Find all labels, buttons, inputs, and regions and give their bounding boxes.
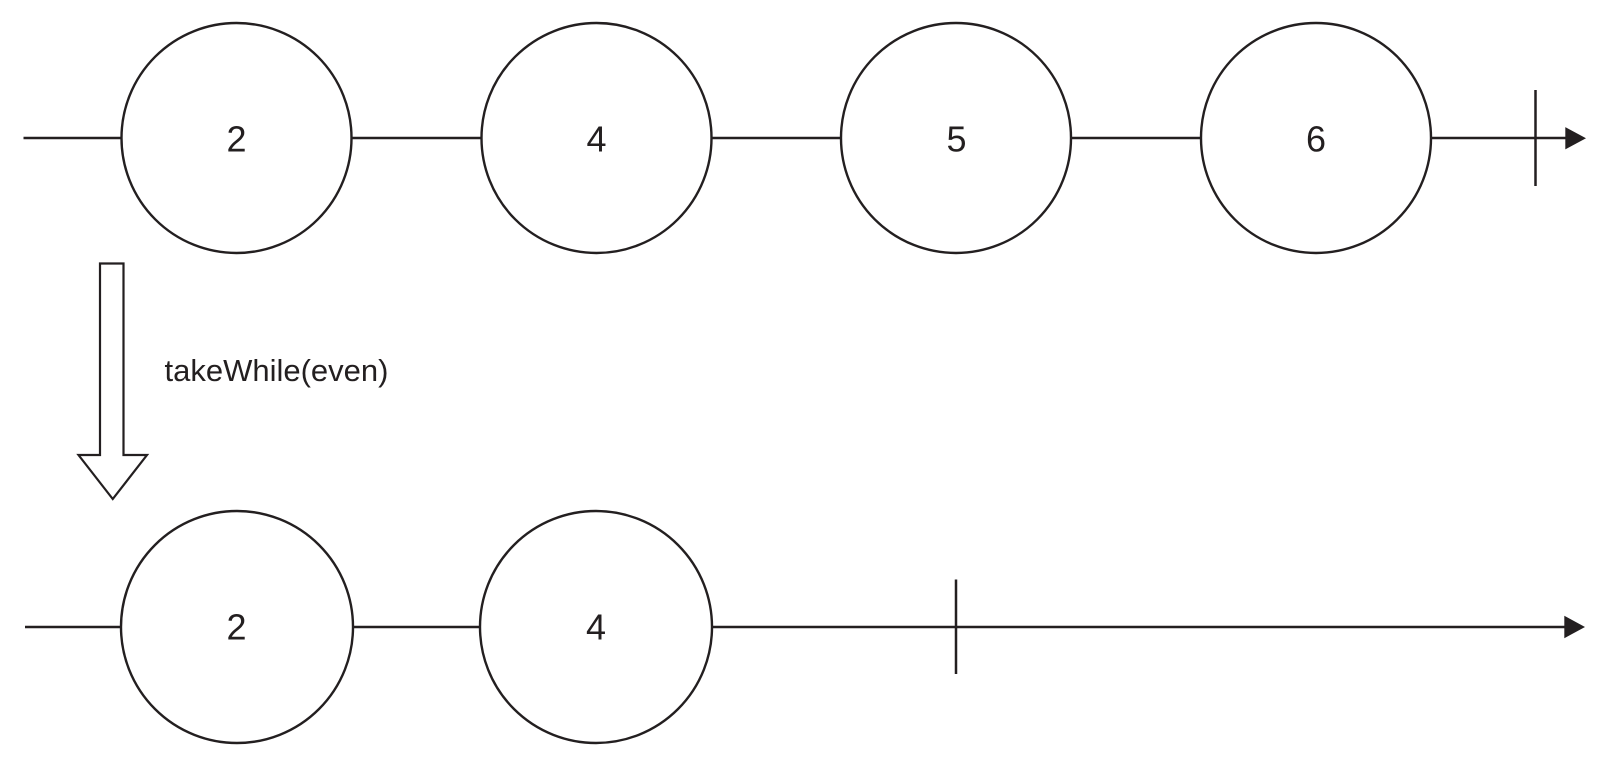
svg-text:5: 5 [946,119,966,160]
svg-text:takeWhile(even): takeWhile(even) [165,353,389,388]
svg-text:2: 2 [226,119,246,160]
svg-text:4: 4 [586,607,606,648]
svg-text:4: 4 [586,119,606,160]
svg-text:6: 6 [1306,119,1326,160]
svg-text:2: 2 [226,607,246,648]
